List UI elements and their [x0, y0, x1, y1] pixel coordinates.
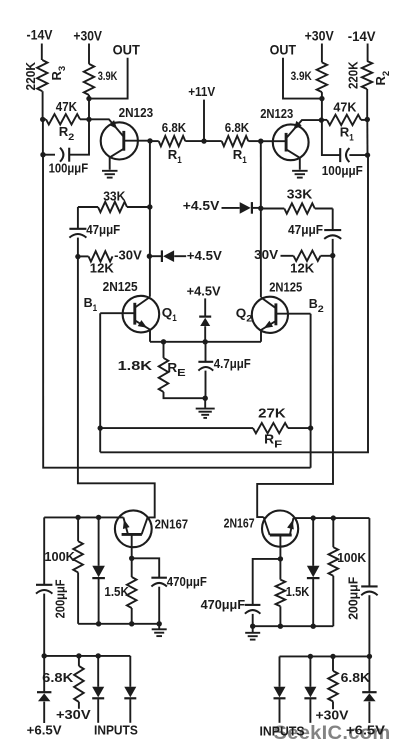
- svg-text:100K: 100K: [44, 549, 75, 564]
- emitter lead Q2 with arrow: [261, 321, 276, 342]
- svg-text:200μμF: 200μμF: [347, 577, 361, 620]
- svg-text:-14V: -14V: [27, 27, 53, 42]
- wire +30V to 3.9K right: [321, 44, 323, 63]
- input diode 2 (right): [309, 656, 311, 686]
- node 200uuF/input rail right (dot): [367, 654, 372, 659]
- node center column on rail (dot): [203, 339, 208, 344]
- capacitor 470uuF (right): [253, 559, 281, 605]
- svg-text:R1: R1: [168, 147, 183, 166]
- svg-text:4.7μμF: 4.7μμF: [214, 356, 251, 371]
- svg-text:+4.5V: +4.5V: [187, 284, 221, 299]
- svg-text:1.5K: 1.5K: [286, 584, 310, 599]
- resistor R2 220K (right, vertical): [362, 61, 372, 89]
- node 33K right junction left (dot): [147, 204, 152, 209]
- wire 47uuF to 12K junction right: [332, 239, 334, 256]
- input diode 2 (left): [129, 656, 131, 687]
- node RF right junction (dot): [308, 425, 313, 430]
- svg-text:2N167: 2N167: [224, 516, 255, 531]
- svg-text:33K: 33K: [103, 188, 126, 203]
- diode clamp left (+4.5V): [149, 255, 161, 257]
- svg-text:1.8K: 1.8K: [118, 358, 153, 373]
- resistor 33K (left): [78, 206, 98, 208]
- node clamp diode junction left (dot): [147, 254, 152, 259]
- svg-text:R3: R3: [49, 66, 68, 81]
- svg-text:-30V: -30V: [114, 248, 142, 263]
- wire 47uuF column right top: [332, 209, 334, 231]
- wire -14V to R3: [41, 44, 43, 61]
- node base/1.5K junction right (dot): [278, 556, 283, 561]
- node 1.5K bottom right (dot): [278, 624, 283, 629]
- resistor 100K (left): [77, 517, 79, 541]
- svg-text:12K: 12K: [90, 260, 115, 275]
- ground (center): [204, 398, 206, 408]
- svg-text:RE: RE: [167, 360, 185, 379]
- collector lead 2N123 left: [110, 149, 124, 170]
- svg-text:1.5K: 1.5K: [104, 584, 129, 599]
- svg-text:27K: 27K: [258, 406, 286, 421]
- svg-text:+4.5V: +4.5V: [183, 198, 220, 213]
- node input diode 1 left (dot): [96, 653, 101, 658]
- wire R3 to 47K junction: [42, 91, 44, 119]
- svg-text:200μμF: 200μμF: [54, 579, 68, 618]
- wire right column top: [260, 141, 262, 297]
- base lead Q2 / node B2: [276, 313, 311, 315]
- wire right 47uuF column down to right 2N167 collector: [257, 256, 333, 517]
- svg-text:2N125: 2N125: [103, 279, 138, 294]
- wire left column top: [149, 141, 151, 297]
- svg-text:6.8K: 6.8K: [162, 120, 187, 135]
- collector lead 2N167 left: [142, 517, 148, 534]
- base lead Q1 / node B1: [100, 312, 135, 314]
- emitter lead 2N167 right with arrow: [290, 518, 294, 535]
- node base node left (dot): [147, 138, 152, 143]
- svg-text:100μμF: 100μμF: [322, 164, 363, 178]
- wire +11V drop: [203, 100, 205, 142]
- node OUT junction right (dot): [319, 96, 324, 101]
- svg-text:R2: R2: [373, 71, 392, 86]
- ground (right stage): [252, 626, 254, 632]
- node +11V junction (dot): [201, 138, 206, 143]
- resistor RF 27K: [100, 427, 253, 429]
- ground (right 2N123): [292, 170, 308, 172]
- input diode 1 (left): [97, 656, 99, 687]
- svg-text:+11V: +11V: [188, 84, 215, 99]
- ground (left stage): [158, 624, 160, 629]
- collector lead Q2: [261, 297, 276, 308]
- svg-text:6.8K: 6.8K: [341, 670, 371, 685]
- resistor 6.8K (bottom right): [332, 656, 334, 671]
- svg-text:2N123: 2N123: [119, 105, 154, 120]
- resistor 12K (left): [78, 255, 89, 257]
- svg-text:100K: 100K: [337, 550, 367, 565]
- wire -14V to R2 right: [367, 44, 369, 62]
- svg-text:-14V: -14V: [348, 29, 376, 44]
- collector lead Q1: [135, 297, 150, 308]
- base bar Q2: [274, 303, 277, 325]
- node ground junction (dot): [203, 396, 208, 401]
- wire emitter rail right stage: [293, 517, 369, 519]
- resistor R1 47K (right, horizontal): [321, 119, 327, 121]
- node 470uuF bottom right (dot): [250, 624, 255, 629]
- resistor 6.8K (bottom left): [78, 656, 80, 666]
- resistor R1 6.8K (left of center): [150, 140, 159, 142]
- base bar 2N123 left: [122, 131, 125, 151]
- diode +6.5V clamp (left): [43, 656, 45, 692]
- diode bias left stage: [98, 517, 100, 565]
- svg-text:47μμF: 47μμF: [288, 223, 323, 237]
- collector lead 2N167 right: [264, 517, 270, 535]
- resistor RE 1.8K: [163, 342, 165, 358]
- base bar 2N167 left: [122, 533, 142, 536]
- svg-text:+6.5V: +6.5V: [346, 723, 385, 738]
- resistor 3.9K (left, vertical): [84, 64, 94, 95]
- capacitor 100uuF (left): [43, 154, 55, 156]
- capacitor 47uuF (right): [324, 229, 341, 231]
- wire emitter feed 2N123 right: [287, 120, 321, 137]
- emitter lead 2N167 left with arrow: [123, 517, 127, 533]
- diode bias right stage: [312, 518, 314, 566]
- base lead 2N123 left: [124, 140, 150, 142]
- svg-text:+30V: +30V: [73, 29, 102, 44]
- svg-text:OUT: OUT: [113, 43, 141, 58]
- svg-text:100μμF: 100μμF: [49, 162, 89, 176]
- svg-text:R2: R2: [59, 124, 75, 143]
- emitter lead Q1 with arrow: [135, 320, 150, 342]
- wire OUT drop left: [89, 58, 128, 99]
- node 100K top left (dot): [75, 515, 80, 520]
- wire junction to 100uuF: [42, 119, 44, 154]
- node 6.8K top left (dot): [76, 653, 81, 658]
- svg-text:2N167: 2N167: [155, 516, 189, 531]
- wire B1 column: [99, 313, 101, 452]
- collector lead 2N123 right: [286, 149, 300, 170]
- emitter arrow 2N123 right: [293, 121, 301, 130]
- svg-text:30V: 30V: [254, 247, 278, 262]
- base lead 2N123 right: [261, 140, 286, 142]
- capacitor 470uuF (left): [132, 558, 160, 577]
- wire emitter rail: [150, 341, 261, 343]
- diode clamp right (+4.5V): [222, 207, 240, 209]
- resistor 12K (right): [281, 255, 294, 257]
- resistor R2 47K (left, horizontal): [43, 118, 46, 120]
- node clamp diode junction right (dot): [258, 206, 263, 211]
- node 6.8K top right (dot): [330, 654, 335, 659]
- node diode bottom left (dot): [96, 621, 101, 626]
- svg-text:OUT: OUT: [270, 43, 297, 58]
- svg-text:220K: 220K: [347, 62, 361, 90]
- wire emitter feed 2N123 left: [89, 119, 123, 136]
- svg-text:2N125: 2N125: [269, 280, 302, 295]
- base bar 2N167 right: [270, 534, 292, 537]
- node 200uuF/input rail left (dot): [42, 653, 47, 658]
- svg-text:R1: R1: [233, 147, 248, 166]
- node diode bottom right (dot): [311, 624, 316, 629]
- node base/1.5K junction left (dot): [129, 556, 134, 561]
- diode +6.5V clamp (right): [368, 656, 370, 692]
- wire 220K junction down to cap right: [366, 120, 368, 156]
- wire left 47uuF column down to left 2N167 collector: [78, 257, 155, 518]
- base bar Q1: [133, 303, 136, 325]
- node 47K left junction right (dot): [319, 117, 324, 122]
- capacitor 200uuF (left): [43, 517, 45, 584]
- node diode top right (dot): [311, 515, 316, 520]
- svg-text:6.8K: 6.8K: [42, 670, 74, 685]
- resistor R3 220K (left, vertical): [37, 60, 47, 91]
- svg-text:INPUTS: INPUTS: [94, 722, 138, 737]
- wire bottom rail left stage: [78, 623, 159, 625]
- resistor 1.5K (right): [279, 559, 281, 580]
- svg-text:12K: 12K: [290, 260, 315, 275]
- resistor 33K (right): [261, 208, 285, 210]
- wire 47K junction down to 100uuF right: [69, 119, 89, 154]
- svg-text:470μμF: 470μμF: [167, 574, 207, 589]
- svg-text:47K: 47K: [56, 99, 78, 114]
- wire 3.9K to OUT junction: [88, 95, 90, 119]
- node 12K junction left (dot): [75, 254, 80, 259]
- wire B2 column: [310, 314, 312, 468]
- diode clamp center (+4.5V): [204, 298, 206, 316]
- wire emitter rail left stage: [44, 516, 123, 518]
- svg-text:B2: B2: [309, 296, 324, 315]
- wire input rail left: [44, 655, 130, 657]
- node junction 100uuF left (dot): [40, 152, 45, 157]
- capacitor 200uuF (right): [368, 518, 370, 586]
- wire cross B1 to right 220K column: [100, 155, 368, 452]
- svg-text:B1: B1: [84, 295, 98, 314]
- base bar 2N123 right: [285, 133, 288, 152]
- node 100K top right (dot): [331, 515, 336, 520]
- node OUT junction left (dot): [86, 96, 91, 101]
- svg-text:+6.5V: +6.5V: [27, 722, 62, 737]
- node 1.5K bottom left (dot): [129, 621, 134, 626]
- node 100uuF right junction (dot): [365, 152, 370, 157]
- wire 47uuF to 12K junction left: [77, 238, 79, 257]
- node 470uuF bottom left (dot): [157, 621, 162, 626]
- node RF left junction (dot): [98, 425, 103, 430]
- svg-text:+30V: +30V: [56, 707, 91, 722]
- ground (left 2N123): [102, 170, 118, 172]
- resistor 1.5K (left): [131, 558, 133, 577]
- svg-text:470μμF: 470μμF: [201, 597, 246, 612]
- svg-text:R1: R1: [340, 124, 355, 143]
- wire +30V to 3.9K: [88, 44, 90, 64]
- svg-text:+30V: +30V: [316, 707, 349, 722]
- capacitor 47uuF (left): [69, 228, 86, 230]
- svg-text:33K: 33K: [287, 186, 313, 201]
- svg-text:6.8K: 6.8K: [225, 120, 250, 135]
- wire OUT drop right: [283, 58, 322, 99]
- input diode 1 (right): [279, 656, 281, 686]
- resistor 3.9K (right, vertical): [317, 62, 327, 92]
- emitter arrow 2N123 left: [109, 120, 117, 129]
- resistor 100K (right): [332, 518, 334, 547]
- svg-text:47μμF: 47μμF: [86, 223, 120, 237]
- node 1.8K top (dot): [161, 339, 166, 344]
- svg-text:2N123: 2N123: [260, 106, 293, 121]
- wire 47uuF column left top: [77, 207, 79, 229]
- base stem 2N167 left: [131, 534, 133, 558]
- svg-text:RF: RF: [264, 432, 283, 451]
- wire 3.9K right down: [322, 92, 340, 155]
- capacitor 4.7uuF: [205, 342, 207, 362]
- wire cross B2 to left 220K column: [43, 155, 311, 468]
- svg-text:Q1: Q1: [162, 305, 178, 324]
- wire input rail right: [280, 655, 370, 657]
- node input diode 2 right (dot): [308, 654, 313, 659]
- node junction 220K/47K (dot): [40, 117, 45, 122]
- node 12K junction right (dot): [330, 253, 335, 258]
- svg-text:Q2: Q2: [236, 305, 253, 324]
- base stem 2N167 right: [279, 535, 281, 559]
- svg-text:47K: 47K: [333, 100, 357, 115]
- node 220K/47K junction right (dot): [365, 117, 370, 122]
- wire R2 right to 47K junction: [366, 89, 368, 120]
- svg-text:3.9K: 3.9K: [98, 69, 118, 83]
- wire bottom rail right stage: [253, 625, 334, 627]
- svg-text:+30V: +30V: [305, 29, 334, 44]
- node diode top left (dot): [96, 515, 101, 520]
- svg-text:INPUTS: INPUTS: [260, 724, 305, 739]
- node 47K right junction left (dot): [86, 117, 91, 122]
- node base node right (dot): [258, 139, 263, 144]
- capacitor 100uuF (right): [339, 148, 341, 162]
- svg-text:220K: 220K: [24, 62, 38, 91]
- svg-text:+4.5V: +4.5V: [187, 248, 222, 263]
- resistor R1 6.8K (right of center): [204, 140, 222, 142]
- svg-text:3.9K: 3.9K: [291, 69, 312, 83]
